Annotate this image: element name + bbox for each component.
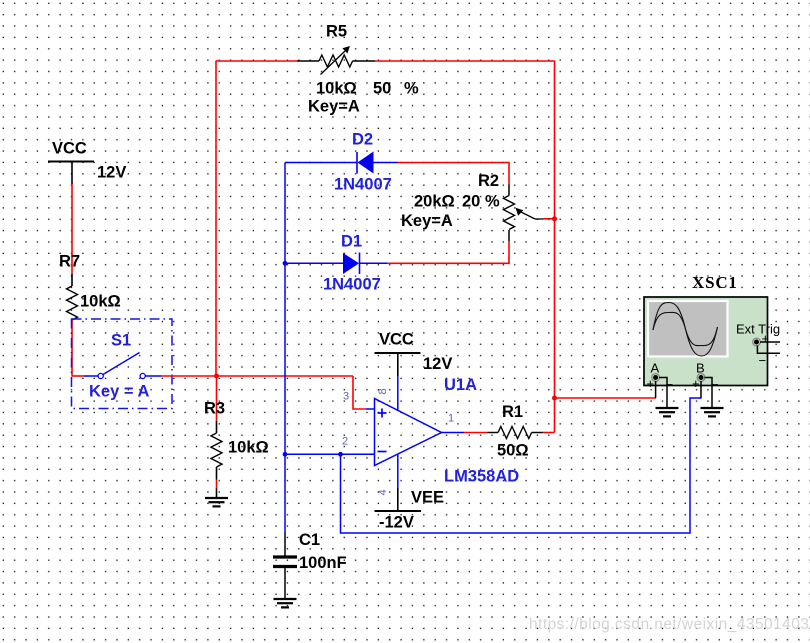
wire node A up to R5 left [215, 61, 217, 377]
power VCC op-amp [375, 331, 453, 377]
svg-text:12V: 12V [423, 355, 452, 373]
svg-text:https://blog.csdn.net/weixin_4: https://blog.csdn.net/weixin_43501403 [529, 616, 809, 633]
node pin2 left junction [283, 452, 288, 457]
svg-text:1: 1 [448, 413, 454, 425]
svg-text:+: + [692, 376, 700, 391]
svg-text:D2: D2 [352, 131, 373, 149]
wire S1 to node A [162, 375, 354, 377]
svg-text:C1: C1 [299, 531, 320, 549]
potentiometer R2 [401, 172, 543, 241]
scope trace channel A [653, 303, 718, 357]
wire R2 to D1 [387, 241, 509, 263]
svg-text:-12V: -12V [379, 514, 414, 532]
node D1 junction [283, 261, 288, 266]
wire node A to op-amp pin3 [353, 376, 366, 409]
svg-text:−: − [759, 353, 767, 368]
ground GND scope A [656, 408, 679, 416]
wire D2 to R2 [398, 163, 509, 185]
wire C1 top lead [284, 533, 286, 556]
diode D1 [285, 233, 387, 294]
wire blue left vertical (diodes to C1) [284, 163, 286, 533]
svg-text:2: 2 [342, 436, 348, 448]
power VEE op-amp [375, 488, 445, 532]
svg-text:10kΩ: 10kΩ [228, 439, 269, 457]
svg-text:R1: R1 [502, 403, 523, 421]
wire R1 to right net [543, 432, 555, 434]
wire R5 top left [216, 60, 297, 62]
node A junction [214, 374, 219, 379]
potentiometer R5 [297, 23, 419, 116]
svg-text:50: 50 [373, 80, 391, 98]
svg-text:10kΩ: 10kΩ [80, 293, 121, 311]
wire R2 wiper to right net [543, 218, 555, 220]
resistor R7 [59, 253, 121, 321]
svg-text:VCC: VCC [379, 331, 414, 349]
svg-text:LM358AD: LM358AD [444, 468, 519, 486]
svg-text:4: 4 [377, 489, 389, 495]
wire feedback loop to scope B [341, 398, 702, 533]
ground GND C1 [274, 599, 297, 607]
svg-text:1N4007: 1N4007 [334, 176, 392, 194]
svg-text:S1: S1 [111, 332, 131, 350]
op-amp U1A [342, 376, 519, 496]
svg-text:Key=A: Key=A [401, 212, 453, 230]
svg-text:%: % [404, 80, 419, 98]
ground GND R3 [205, 498, 228, 506]
svg-text:Key=A: Key=A [308, 98, 360, 116]
wire R7 to S1 [71, 320, 73, 376]
svg-text:+: + [647, 376, 655, 391]
wire inverting input row [285, 453, 375, 455]
switch S1 [72, 319, 173, 409]
svg-text:R5: R5 [326, 23, 347, 41]
svg-text:D1: D1 [341, 233, 362, 251]
wire op-amp output to R1 [464, 432, 488, 434]
svg-text:U1A: U1A [444, 376, 477, 394]
diode D2 [285, 131, 398, 194]
ground GND scope B [701, 408, 724, 416]
svg-text:8: 8 [377, 388, 389, 394]
power VCC supply top-left [48, 140, 126, 185]
svg-text:Key = A: Key = A [89, 383, 149, 401]
svg-text:VCC: VCC [52, 140, 87, 158]
node pin2 feedback junction [338, 452, 343, 457]
svg-text:Ext Trig: Ext Trig [736, 322, 780, 337]
capacitor C1 [273, 531, 347, 599]
wire node A to R3 [216, 376, 218, 421]
svg-text:10kΩ: 10kΩ [316, 80, 357, 98]
svg-text:20: 20 [462, 193, 480, 211]
resistor R3 [204, 400, 269, 480]
scope trace channel B [653, 312, 718, 345]
svg-text:3: 3 [343, 391, 349, 403]
svg-text:R3: R3 [204, 400, 225, 418]
svg-text:12V: 12V [97, 164, 126, 182]
svg-text:20kΩ: 20kΩ [414, 193, 455, 211]
wire output node to scope A [555, 397, 657, 399]
svg-text:XSC1: XSC1 [692, 273, 738, 292]
svg-text:50Ω: 50Ω [497, 442, 529, 460]
svg-text:1N4007: 1N4007 [323, 276, 381, 294]
svg-text:%: % [485, 193, 500, 211]
svg-text:R7: R7 [59, 253, 80, 271]
wire R5 top right [375, 60, 555, 62]
node R2 wiper junction [552, 216, 557, 221]
wire right vertical net [554, 61, 556, 433]
svg-text:100nF: 100nF [299, 554, 347, 572]
oscilloscope XSC1 [644, 273, 780, 408]
resistor R1 [488, 403, 543, 460]
svg-text:R2: R2 [478, 172, 499, 190]
svg-text:VEE: VEE [411, 489, 444, 507]
svg-text:+: + [762, 331, 770, 346]
node output junction [552, 396, 557, 401]
wire VCC to R7 [71, 184, 73, 274]
wire R3 to ground [216, 480, 218, 489]
